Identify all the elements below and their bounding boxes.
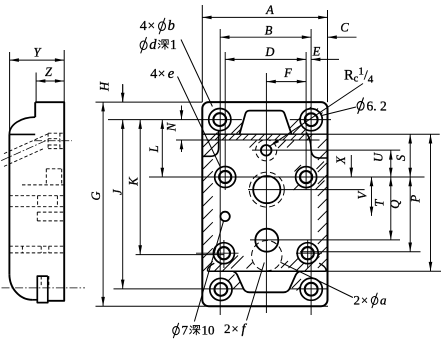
svg-text:4: 4	[140, 19, 147, 34]
svg-text:V: V	[356, 190, 370, 199]
svg-text:6. 2: 6. 2	[367, 99, 387, 114]
svg-text:T: T	[373, 199, 387, 207]
svg-text:4: 4	[150, 67, 157, 82]
svg-text:X: X	[334, 155, 348, 165]
svg-text:P: P	[408, 195, 422, 204]
svg-text:Z: Z	[45, 65, 53, 79]
svg-text:2: 2	[224, 321, 231, 336]
svg-text:L: L	[147, 145, 161, 153]
svg-text:F: F	[283, 66, 292, 80]
svg-text:×: ×	[361, 294, 368, 308]
svg-text:d: d	[149, 37, 157, 53]
svg-text:2: 2	[354, 293, 361, 308]
svg-text:D: D	[264, 45, 274, 59]
svg-text:N: N	[164, 122, 178, 132]
svg-text:K: K	[127, 177, 141, 187]
svg-text:×: ×	[232, 322, 239, 336]
svg-text:×: ×	[148, 18, 156, 33]
svg-text:×: ×	[158, 66, 166, 81]
svg-text:1: 1	[170, 37, 177, 52]
svg-text:E: E	[312, 45, 321, 59]
svg-text:U: U	[372, 152, 386, 162]
svg-text:B: B	[265, 24, 273, 38]
svg-text:A: A	[265, 3, 274, 17]
svg-text:e: e	[168, 66, 175, 82]
svg-text:Q: Q	[388, 200, 402, 209]
svg-text:S: S	[394, 154, 408, 161]
svg-text:C: C	[340, 21, 349, 35]
svg-text:G: G	[89, 191, 103, 200]
svg-text:10: 10	[202, 323, 215, 338]
svg-text:H: H	[98, 81, 112, 92]
svg-text:b: b	[168, 18, 175, 34]
svg-text:7: 7	[182, 323, 189, 338]
svg-text:a: a	[380, 293, 387, 308]
